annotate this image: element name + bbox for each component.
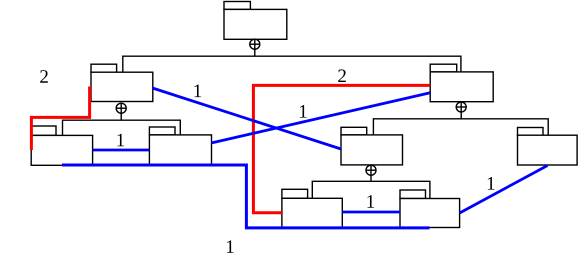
bus root-children: [123, 49, 461, 72]
blue link 1 diagonal B: L2 right edge to M3 left edge: [152, 88, 341, 149]
expand symbol R2: [456, 102, 466, 112]
label 2 left: [40, 70, 48, 83]
label 2 right: [338, 69, 346, 82]
folder M3: [341, 127, 403, 165]
blue link 1: L3a-L3b horizontal: [93, 149, 150, 152]
expand symbol M3: [366, 165, 376, 175]
expand symbol root: [250, 39, 260, 49]
blue link 1 diagonal right: B4b right edge to FR bottom: [460, 166, 548, 214]
label 1 right diagonal: [488, 177, 495, 190]
label 1 on diagonal B: [194, 85, 201, 98]
bus R2-children: [373, 112, 548, 135]
label 1 left pair: [117, 134, 124, 147]
bus L2-children: [63, 113, 181, 135]
folder ROOT: [224, 2, 287, 40]
folder L3a: [31, 126, 92, 165]
blue link 1 diagonal A: L3b right edge to R2 left edge: [211, 93, 430, 143]
folder FR: [518, 128, 578, 166]
folder B4b: [400, 190, 460, 228]
folder R2: [430, 64, 493, 102]
red link 2 (left): L2 left edge to L3a left edge: [31, 87, 89, 151]
folder B4a: [282, 189, 342, 227]
expand symbol L2: [116, 103, 126, 113]
red link 2 (right): R2 left edge to B4a left edge: [253, 85, 430, 212]
folder L2: [91, 64, 153, 101]
label 1 on diagonal A: [300, 105, 307, 118]
bus M3-children: [312, 175, 430, 198]
label 1 bottom pair: [367, 195, 374, 208]
folder L3b: [149, 127, 211, 164]
blue link 1: B4a-B4b horizontal: [342, 211, 400, 214]
blue long link 1: L3a bottom to B4b bottom: [62, 165, 430, 228]
label 1 long link: [227, 240, 234, 253]
